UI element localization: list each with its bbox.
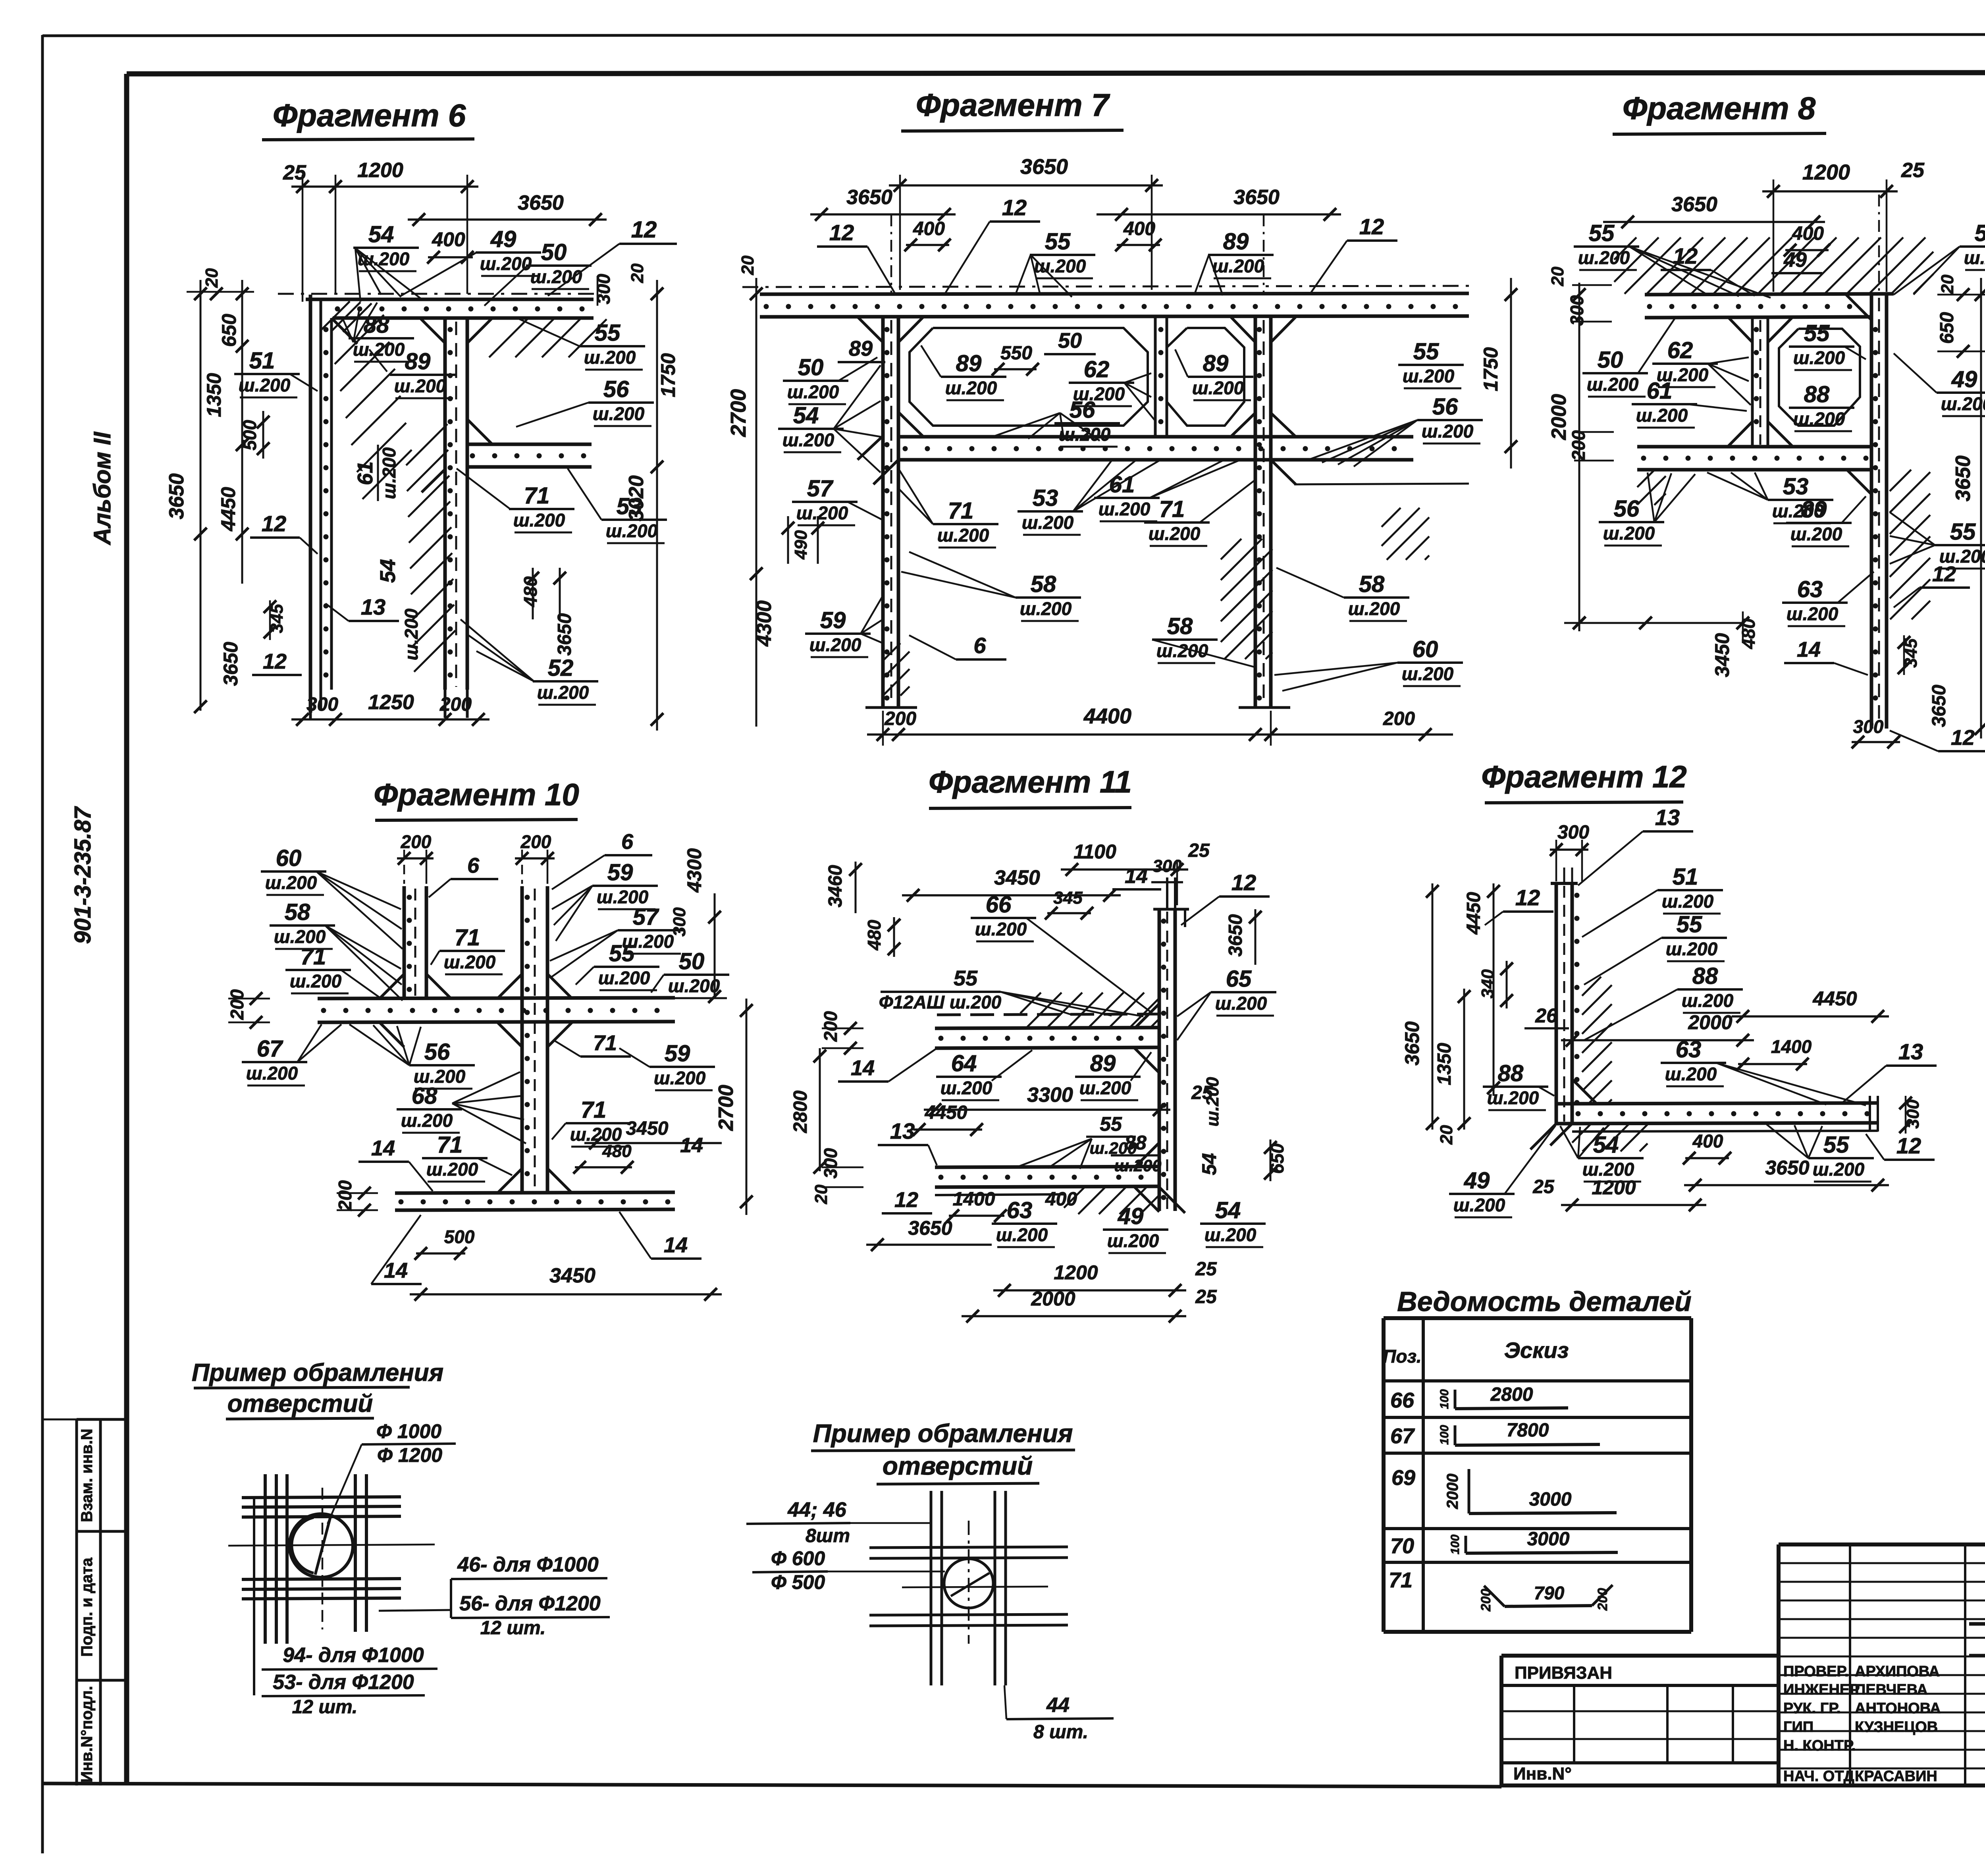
frag10 vertical dim 2700 [715,999,753,1215]
svg-text:64: 64 [951,1051,977,1076]
frag11 bottom labels 12 1400 63 400 49 54 [882,1188,1266,1253]
svg-text:400: 400 [1792,223,1824,244]
svg-text:55: 55 [595,320,621,346]
svg-text:3450: 3450 [1711,633,1733,677]
frag6 corner chamfers [331,318,492,492]
svg-text:2700: 2700 [715,1085,738,1131]
frag12 hatch wall band [1582,977,1601,996]
svg-text:89: 89 [405,349,431,374]
svg-text:ш.200: ш.200 [796,503,848,523]
frag6 dim 400 [427,228,474,264]
frag7 top slab chain line [742,286,1469,287]
svg-text:Ведомость деталей: Ведомость деталей [1397,1286,1692,1317]
frag6 label 12 mid-left [250,511,318,554]
svg-text:55: 55 [1100,1113,1122,1135]
frag8 label 12 right [1894,562,1970,607]
frag10 rot dim 200 slab left [227,989,270,1029]
frag12 wall top cap [1551,868,1578,883]
frag11 wall top tail [1153,877,1189,927]
svg-text:66: 66 [1390,1388,1415,1412]
svg-text:Фрагмент 10: Фрагмент 10 [374,777,579,812]
title Фрагмент 10 [374,777,579,820]
svg-text:12: 12 [1951,726,1975,750]
frag6 label 13 [326,594,399,621]
svg-text:ш.200: ш.200 [654,1068,706,1088]
svg-text:3650: 3650 [1671,193,1717,216]
frag10 upper slab [318,998,675,1022]
frag6 hatch band left [335,315,384,364]
svg-text:ш.200: ш.200 [1212,256,1264,276]
svg-text:ш.200: ш.200 [945,378,997,398]
svg-text:500: 500 [239,420,260,450]
frag11 hatch above upper slab [1020,993,1041,1013]
svg-text:1400: 1400 [1771,1036,1812,1057]
example1 label 94 для Ф1000 [262,1644,437,1670]
frag10 label 14 bottom [371,1215,422,1284]
frag8 dim line 3450 480 [1564,611,1759,677]
frag7 label 12 mid [945,195,1040,294]
svg-text:901-3-235.87: 901-3-235.87 [70,806,96,944]
frag8 label 53 [1707,472,1833,523]
title block left привязан row [1501,1663,1779,1685]
frag6 dim 3650 top [408,191,607,226]
svg-text:54: 54 [1198,1153,1220,1175]
svg-text:2800: 2800 [1490,1384,1533,1405]
svg-text:3300: 3300 [1027,1084,1073,1107]
svg-text:70: 70 [1390,1534,1414,1558]
svg-text:Инв.N°подл.: Инв.N°подл. [78,1686,96,1782]
svg-text:65: 65 [1226,966,1252,992]
frag11 labels 55 88 lower right [1016,1113,1162,1175]
svg-text:14: 14 [851,1056,875,1080]
svg-text:13: 13 [890,1118,915,1143]
frag10 label 71 lower right [552,1097,631,1147]
svg-text:3450: 3450 [994,866,1040,889]
svg-text:13: 13 [361,594,385,619]
example2 mesh horizontal bars [869,1547,1068,1626]
frag8 label 63 [1782,572,1874,626]
svg-text:ш.200: ш.200 [593,403,645,424]
svg-text:3650: 3650 [1020,155,1068,179]
vedomost row 70 [1390,1529,1618,1558]
frag11 label 14 left [838,1048,937,1082]
svg-text:ш.200: ш.200 [353,339,405,360]
svg-text:1250: 1250 [368,691,414,714]
svg-text:25: 25 [1901,159,1925,182]
svg-text:54: 54 [1215,1197,1241,1223]
svg-text:отверстий: отверстий [883,1452,1033,1480]
svg-text:ш.200: ш.200 [1402,663,1454,684]
frag8 vertical dim 2000 [1548,283,1586,631]
example2 label Ф600 Ф500 [752,1547,945,1593]
svg-text:500: 500 [444,1226,475,1247]
frag7 cell rebar outline right [1167,328,1244,426]
svg-text:55: 55 [1950,519,1976,545]
frag7 middle rebar column [1155,317,1167,437]
svg-text:71: 71 [301,944,326,970]
svg-text:69: 69 [1391,1466,1415,1490]
frag7 label 57 left [792,476,883,525]
frag8 bottom dim 300 [1852,716,1900,748]
frag6 label 52 [461,619,598,705]
example1 circle slash [292,1516,331,1575]
example2 label 44 46 8шт [746,1498,931,1546]
frag7 label 61 [1094,461,1239,521]
svg-text:АНТОНОВА: АНТОНОВА [1855,1700,1941,1717]
svg-text:1750: 1750 [1480,347,1502,391]
svg-text:50: 50 [1058,329,1082,353]
frag8 dim 1200 25 [1762,159,1925,292]
svg-text:20: 20 [1548,266,1567,286]
svg-text:Инв.N°: Инв.N° [1513,1764,1572,1783]
svg-text:50: 50 [798,355,824,380]
example1 centerlines [228,1488,435,1629]
svg-text:88: 88 [1498,1060,1524,1086]
svg-text:53: 53 [1783,474,1809,499]
frag6 bottom dims 300 1250 200 [291,691,490,726]
frag6 dim 20 left top [187,268,254,300]
frag12 rot dim 300 right [1899,1096,1923,1134]
frag11 upper slab [935,1028,1159,1048]
svg-text:ш.200: ш.200 [1203,1077,1222,1126]
frag10 dim 200 right [515,831,555,884]
frag7 label 53 [1018,461,1159,535]
svg-text:54: 54 [376,559,400,583]
svg-text:88: 88 [1692,963,1718,989]
svg-text:71: 71 [581,1097,607,1123]
svg-text:Ф 1000: Ф 1000 [376,1420,441,1442]
frag10 rot dim 200 lower left [335,1180,378,1217]
frag8 label 50 [1582,318,1675,397]
frag10 vertical dim 4300 [683,848,721,1003]
svg-text:ш.200: ш.200 [1682,990,1734,1011]
frag12 label 13 top [1578,805,1693,885]
svg-text:ш.200: ш.200 [394,376,446,396]
frag10 dim 3450 right [584,1118,722,1149]
svg-text:480: 480 [520,576,541,607]
svg-text:51: 51 [1673,864,1698,890]
frag8 label 55 top left [1574,220,1771,298]
frag7 left wall [883,317,898,708]
svg-text:Н. КОНТР.: Н. КОНТР. [1783,1737,1856,1754]
svg-text:25: 25 [1195,1259,1217,1280]
frag6 wall bottom tails [310,690,467,719]
svg-text:13: 13 [1655,805,1680,830]
frag8 wall axis chain above slab [1878,195,1880,295]
frag6 middle wall [445,318,467,690]
frag6 label 71 [457,469,574,532]
example1 label leader vertical [253,1496,255,1695]
frag8 label 62 [1652,337,1751,405]
svg-text:4300: 4300 [753,600,776,647]
svg-text:14: 14 [371,1136,395,1160]
frag7 label 6 [909,633,1006,659]
svg-text:63: 63 [1676,1037,1702,1062]
frag10 label 67 [242,1024,341,1085]
svg-text:3460: 3460 [825,865,846,907]
svg-text:200: 200 [1478,1589,1494,1612]
svg-text:4450: 4450 [1463,892,1484,935]
frag7 label 89 left [838,337,885,362]
svg-text:49: 49 [1951,366,1977,392]
title block outline [1501,1544,1985,1785]
svg-text:3000: 3000 [1529,1489,1572,1510]
frag6 dim 500 [239,411,270,459]
svg-text:ш.200: ш.200 [1964,247,1985,268]
svg-text:2000: 2000 [1548,394,1571,440]
svg-text:ш.200: ш.200 [513,510,565,530]
svg-text:62: 62 [1084,357,1110,382]
svg-text:1200: 1200 [1054,1261,1098,1284]
frag11 label 12 right [1181,870,1270,925]
frag6 right dims 300 20 1750 3020 [593,263,679,731]
svg-text:200: 200 [335,1180,355,1211]
frag12 dim 300 top [1550,822,1589,881]
svg-text:Фрагмент 6: Фрагмент 6 [273,98,466,133]
svg-text:20: 20 [628,263,647,283]
frag7 label 58 lower [1152,613,1255,667]
svg-text:56: 56 [1070,397,1095,423]
frag10 label 60 [261,845,403,949]
svg-text:ш.200: ш.200 [598,968,650,988]
svg-text:ш.200: ш.200 [480,253,532,274]
svg-text:4300: 4300 [683,848,705,893]
frag10 left wall upper [404,886,426,999]
frag8 dim 345 3650 bottom [1898,635,1950,727]
frag8 right wall [1871,295,1887,729]
outer border left [41,35,44,1853]
svg-text:71: 71 [524,483,550,509]
svg-text:53: 53 [1033,485,1058,511]
vedomost row 67 [1390,1420,1600,1448]
frag11 dim 1100 25 [1061,840,1210,905]
frag11 rot dim 3650 right [1225,909,1262,965]
svg-text:ш.200: ш.200 [537,682,589,703]
frag7 hatch right edge band [1382,508,1401,527]
svg-text:300: 300 [1853,716,1884,737]
svg-text:ш.200: ш.200 [1107,1230,1159,1251]
frag8 label 12 bottom [1890,726,1985,751]
svg-text:ГИП: ГИП [1783,1719,1813,1735]
frag10 label 58 left [270,899,403,1001]
frag8 chamfers [1728,295,1871,494]
svg-text:НАЧ. ОТД: НАЧ. ОТД [1783,1768,1854,1785]
svg-text:44; 46: 44; 46 [787,1498,847,1521]
svg-text:Фрагмент 7: Фрагмент 7 [916,87,1110,123]
svg-text:63: 63 [1797,576,1823,602]
frag10 label 59 right [552,860,658,941]
frag6 middle slab [467,444,592,467]
svg-text:7800: 7800 [1507,1420,1549,1441]
svg-text:71: 71 [1159,496,1185,522]
svg-text:ш.200: ш.200 [1453,1195,1505,1215]
svg-text:6: 6 [467,854,480,877]
frag11 right wall [1159,909,1175,1211]
svg-text:54: 54 [1975,220,1985,246]
svg-text:55: 55 [1589,220,1615,246]
svg-text:66: 66 [986,892,1012,918]
frag6 label 12 right [548,217,677,296]
svg-text:ш.200: ш.200 [940,1078,992,1098]
svg-text:57: 57 [807,476,834,501]
frag11 rot dim 300 20 left [811,1148,863,1204]
frag6 hatch near corner [321,301,350,330]
svg-text:49: 49 [1464,1168,1490,1193]
svg-text:3650: 3650 [1233,186,1280,209]
frag7 label 12 left [817,220,895,294]
frag7 label 59 left [805,596,883,657]
frag8 middle slab [1637,447,1871,470]
svg-text:ш.200: ш.200 [1098,499,1151,519]
svg-text:ш.200: ш.200 [379,447,399,499]
frag6 label 51 [234,348,318,397]
frag7 cell rebar outline left [910,328,1148,426]
frag10 label 6 right [552,830,652,889]
frag12 dim 1400 [1736,1036,1812,1070]
vedomost row 71 [1389,1568,1613,1612]
svg-text:ш.200: ш.200 [1487,1087,1539,1108]
title Фрагмент 7 [901,87,1124,131]
svg-text:650: 650 [218,314,240,347]
svg-text:ш.200: ш.200 [1114,1156,1161,1175]
example2 mesh vertical bars [931,1491,1006,1685]
svg-text:Фрагмент 12: Фрагмент 12 [1481,759,1687,794]
svg-text:Ф 600: Ф 600 [771,1547,825,1569]
svg-text:4450: 4450 [925,1102,967,1123]
svg-text:ш.200: ш.200 [1215,993,1267,1014]
svg-text:Альбом II: Альбом II [89,431,116,546]
svg-text:54: 54 [368,222,394,247]
svg-text:ш.200: ш.200 [809,634,861,655]
svg-text:ш.200: ш.200 [1665,1064,1717,1084]
svg-text:ш.200: ш.200 [1790,524,1842,544]
svg-text:ш.200: ш.200 [1636,405,1688,426]
frag10 dim 480 [573,1134,703,1174]
frag8 label 88 cell [1789,382,1854,431]
svg-text:340: 340 [1478,969,1497,999]
svg-text:2800: 2800 [790,1090,811,1133]
frag11 dim 4450 [913,1102,983,1136]
frag10 label 57 right [550,904,683,977]
frag7 label 89 cell left [921,345,1006,400]
frag7 label 54 left [778,365,881,472]
frag12 label 55 [1584,912,1727,985]
frag11 rot dim 200 left [820,1011,863,1055]
svg-text:ш.200: ш.200 [1149,523,1201,544]
frag11 dim 3650 bottom-left [866,1217,992,1251]
frag12 wall [1556,883,1580,1124]
frag6 left dim chain 650 1350 4450 3650 [165,280,249,713]
inner frame top [127,72,1985,74]
frag12 label 88 upper [1584,963,1743,1040]
svg-text:ш.200: ш.200 [1022,512,1074,533]
frag11 rebar 66 line [937,1014,1159,1015]
frag12 label 88 left [1483,1060,1554,1110]
svg-text:ш.200: ш.200 [1786,603,1839,624]
svg-text:89: 89 [849,337,873,361]
svg-text:61: 61 [353,461,377,485]
frag6 label 50 [484,239,592,306]
svg-text:400: 400 [432,228,465,251]
frag12 label 51 [1582,864,1723,937]
title block signature texts [1783,1663,1941,1785]
svg-text:Ф12АШ ш.200: Ф12АШ ш.200 [879,992,1002,1012]
svg-text:Ф 1200: Ф 1200 [377,1444,442,1466]
frag12 label 12 left [1485,885,1553,925]
svg-text:200: 200 [401,831,432,852]
frag8 middle wall [1752,318,1768,447]
frag6 dim 480 3650 right [520,568,575,656]
svg-text:54: 54 [793,403,819,428]
svg-text:55: 55 [609,941,635,966]
svg-text:4400: 4400 [1083,704,1131,728]
svg-text:ш.200: ш.200 [1941,393,1985,414]
frag11 label 13 [878,1118,937,1165]
svg-text:89: 89 [1090,1051,1116,1076]
svg-text:3450: 3450 [549,1264,595,1287]
svg-text:200: 200 [227,989,247,1020]
frag10 label 14 left [358,1136,433,1191]
frag7 label 71 left [898,469,998,548]
svg-text:ш.200: ш.200 [606,521,658,541]
frag10 label 14 bottom right [619,1212,701,1259]
svg-text:3450: 3450 [626,1118,669,1139]
frag7 dim 400 right [1115,218,1162,251]
frag6 label 54 [353,222,421,302]
svg-text:Ф 500: Ф 500 [771,1571,825,1593]
svg-text:ш.200: ш.200 [265,872,317,893]
svg-text:3650: 3650 [908,1217,952,1239]
svg-text:44: 44 [1046,1694,1070,1717]
svg-text:ш.200: ш.200 [1793,409,1845,429]
svg-text:Подп. и дата: Подп. и дата [78,1557,96,1656]
title Фрагмент 8 [1613,91,1826,134]
svg-text:КУЗНЕЦОВ: КУЗНЕЦОВ [1855,1719,1938,1735]
svg-text:71: 71 [1389,1568,1413,1592]
svg-text:12: 12 [262,511,286,536]
frag11 hatch below lower slab [1064,1187,1085,1208]
svg-text:51: 51 [249,348,275,374]
frag7 wall axis chains above slab [891,214,1264,294]
svg-text:58: 58 [285,899,310,925]
frag10 label 50 right [651,949,729,998]
svg-text:3650: 3650 [518,191,564,214]
frag8 rot dims right 20 650 [1937,274,1985,358]
svg-text:Поз.: Поз. [1383,1346,1421,1367]
svg-text:58: 58 [1031,571,1056,597]
svg-text:ИНЖЕНЕР: ИНЖЕНЕР [1783,1681,1860,1698]
frag11 label 55 Ф12АIII [879,966,1143,1016]
frag12 label 49 [1449,1126,1555,1217]
svg-text:56: 56 [1432,394,1458,420]
svg-text:400: 400 [913,218,945,239]
svg-text:4450: 4450 [1812,987,1857,1010]
svg-text:200: 200 [1595,1588,1610,1611]
frag8 label 89 [1786,496,1866,546]
frag7 bottom dim 200 4400 200 [867,704,1453,746]
frag6 label 55 [516,318,645,370]
svg-text:8 шт.: 8 шт. [1033,1722,1088,1743]
svg-text:3020: 3020 [625,475,648,521]
title Пример обрамления отверстий (левый) [192,1359,443,1419]
svg-text:400: 400 [1045,1189,1077,1210]
svg-text:71: 71 [437,1132,463,1158]
svg-text:50: 50 [679,949,705,974]
svg-text:1200: 1200 [1802,160,1850,184]
svg-text:300: 300 [670,907,689,937]
outer border top [42,34,1985,36]
frag8 vertical dim 1750 [1480,278,1517,469]
